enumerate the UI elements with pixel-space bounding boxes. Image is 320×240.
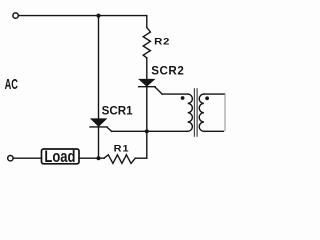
- terminal top-left (AC input): [13, 13, 18, 18]
- wire secondary right edge: [224, 95, 226, 131]
- wire R2 to SCR2: [146, 58, 148, 79]
- wire load to junction: [79, 157, 104, 159]
- resistor R1: [104, 155, 135, 164]
- svg-text:SCR1: SCR1: [102, 104, 133, 117]
- load box: [42, 149, 80, 164]
- wire R1 to SCR2 cathode: [135, 157, 147, 159]
- phasing dot right winding: [205, 96, 209, 100]
- wire top horizontal: [19, 15, 147, 17]
- SCR1 thyristor: [90, 119, 112, 131]
- svg-text:R2: R2: [154, 37, 170, 47]
- junction bottom node: [96, 156, 100, 160]
- transformer T1 right winding: [199, 94, 204, 131]
- terminal bottom-left (AC input): [8, 156, 13, 161]
- svg-text:SCR2: SCR2: [151, 64, 184, 77]
- wire right winding bottom lead: [204, 130, 224, 132]
- wire right winding top lead: [204, 93, 225, 95]
- wire SCR1 cathode down: [98, 127, 100, 158]
- transformer T1 left winding: [188, 94, 193, 131]
- svg-text:AC: AC: [5, 76, 18, 93]
- svg-text:Load: Load: [44, 149, 75, 167]
- phasing dot left winding: [181, 96, 185, 100]
- resistor R2: [143, 27, 150, 58]
- wire transformer left winding bottom lead: [147, 130, 188, 132]
- wire SCR1 gate line: [112, 130, 147, 132]
- wire left branch vertical (SCR1 anode): [98, 16, 100, 119]
- wire SCR2 gate to transformer primary top: [162, 93, 188, 95]
- junction gate node: [145, 129, 149, 133]
- transformer core: [194, 89, 197, 136]
- wire bottom to load: [13, 157, 41, 159]
- junction top node: [96, 14, 100, 18]
- wire right branch vertical top: [146, 16, 148, 28]
- svg-text:R1: R1: [114, 144, 130, 154]
- SCR2 thyristor: [139, 79, 163, 94]
- wire SCR2 cathode down to bottom: [146, 87, 148, 159]
